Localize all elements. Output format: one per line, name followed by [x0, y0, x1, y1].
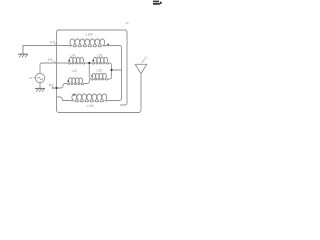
wire L1M right end to vertical riser — [106, 45, 120, 47]
polarity dot L1N — [73, 94, 75, 96]
antenna — [135, 64, 147, 73]
polarity dot L1M — [107, 44, 109, 46]
svg-text:21: 21 — [144, 55, 148, 59]
svg-text:L1B: L1B — [97, 53, 103, 57]
svg-text:2b: 2b — [125, 21, 129, 25]
antenna label leader — [142, 59, 145, 63]
wire bottom coil right lead — [108, 100, 120, 102]
svg-text:L1C: L1C — [72, 69, 79, 73]
page number mark — [153, 1, 162, 5]
wire riser from source to P1 wire — [40, 63, 42, 73]
wire bottom y=112.5 — [57, 74, 142, 113]
wire P2 stub to L1C — [57, 84, 68, 89]
inductor L1D — [91, 73, 108, 80]
polarity dot L1C — [67, 80, 69, 82]
junction dot B — [110, 69, 112, 71]
svg-text:P2: P2 — [49, 83, 53, 87]
svg-text:24: 24 — [29, 76, 33, 80]
inductor L1B — [92, 57, 109, 64]
wire top horizontal y=30 — [57, 30, 128, 111]
inductor L1A — [68, 57, 85, 64]
polarity dot L1A — [68, 60, 70, 62]
svg-text:L1A: L1A — [70, 53, 77, 57]
svg-text:L1M: L1M — [86, 32, 93, 36]
wire L1C right to vertical — [84, 80, 90, 84]
ground under source — [36, 89, 45, 92]
svg-text:P3: P3 — [50, 40, 54, 44]
inductor L1C — [67, 78, 84, 85]
wire stub x=127 bottom — [121, 32, 128, 105]
ground — [19, 46, 28, 58]
source sine — [37, 77, 42, 80]
P1 leader — [53, 61, 56, 63]
junction dot P2 — [55, 87, 57, 89]
wire L1A to junction — [85, 62, 93, 64]
svg-text:L1D: L1D — [97, 69, 104, 73]
polarity dot L1D — [91, 75, 93, 77]
wire horizontal y=70 to riser — [112, 69, 122, 71]
wire vertical from junction A down — [89, 63, 91, 79]
P2 arrow — [52, 87, 55, 89]
source label leader — [33, 77, 35, 79]
svg-text:P1: P1 — [48, 58, 52, 62]
wire P1 net to L1A — [41, 62, 68, 64]
polarity dot L1B — [92, 60, 94, 62]
svg-text:L1M: L1M — [87, 104, 94, 108]
wire L1B right lead down — [107, 63, 111, 79]
inductor L1M — [69, 39, 105, 47]
inductor L1N bottom — [71, 94, 107, 102]
wire source to ground — [39, 83, 41, 89]
junction dot A — [88, 62, 90, 64]
wire vertical x=121.5 with stub to x=127 — [120, 46, 122, 101]
source V1 — [35, 73, 44, 82]
wire bottom coil left zig — [57, 97, 72, 101]
P3 leader — [55, 43, 57, 45]
wire P3 net: ground to L1M — [23, 45, 69, 47]
